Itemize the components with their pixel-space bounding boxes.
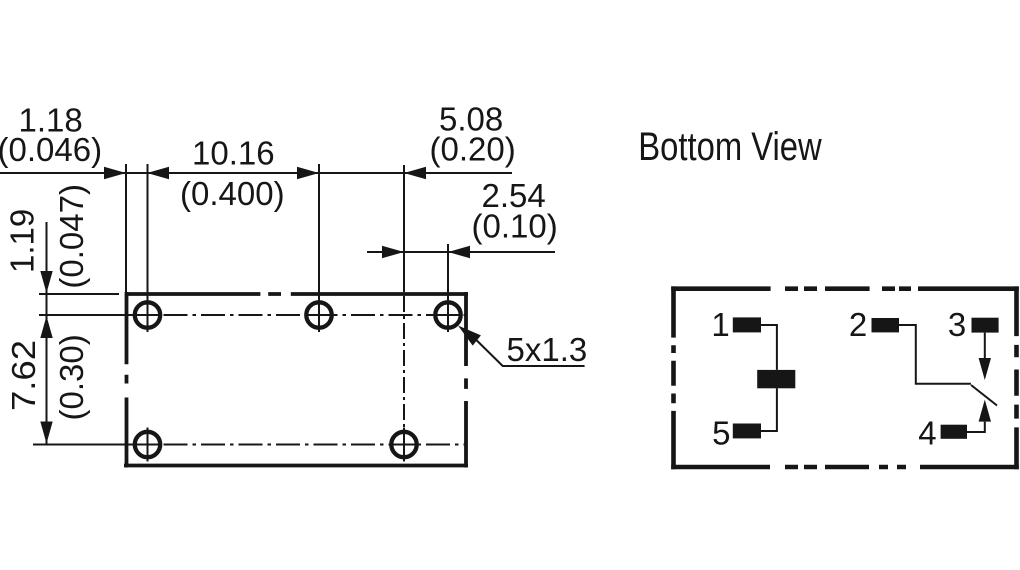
bottom-view box (phantom outline) (671, 286, 1019, 469)
arrow right at hole2 (297, 167, 319, 179)
extension line hole1 x=147 (147, 164, 149, 332)
pad pin 1 (733, 317, 761, 332)
svg-text:(0.10): (0.10) (472, 208, 558, 245)
box right edge (1014, 286, 1019, 469)
svg-text:(0.400): (0.400) (180, 175, 285, 212)
pad pin 4 (941, 425, 967, 439)
extension line hole3 x=448 (447, 244, 449, 332)
arrow down at hole row2 (7.62) (40, 422, 52, 444)
arrowhead pin3 (down) (979, 358, 991, 380)
footprint outline bottom edge (124, 464, 468, 468)
footprint outline right edge (464, 292, 468, 468)
svg-text:2: 2 (849, 306, 867, 343)
svg-text:(0.047): (0.047) (53, 184, 90, 289)
svg-text:(0.046): (0.046) (0, 131, 102, 168)
crosshair verticals bottom holes (148, 428, 405, 462)
hole H2 top-middle (306, 302, 331, 327)
svg-text:3: 3 (948, 306, 966, 343)
leader line 5x1.3 (477, 340, 585, 366)
extension line x=404 above rect (403, 165, 405, 292)
centerline row 2 (dash-dot through bottom holes) (33, 444, 158, 446)
wire pin5 to coil (761, 388, 777, 431)
switch blade (971, 385, 997, 406)
svg-text:7.62: 7.62 (5, 340, 42, 411)
footprint outline left edge (125, 292, 129, 468)
arrows 2.54 dimension (382, 246, 404, 258)
box top edge (671, 286, 1019, 291)
arrow up at hole row1 (7.62) (40, 316, 52, 338)
coil (757, 370, 795, 388)
arrow left at x=404 (404, 167, 426, 179)
pad pin 5 (733, 424, 761, 439)
wire pin1 to coil (761, 325, 777, 370)
arrow left at hole1 (147, 167, 169, 179)
arrow down at rect top (1.19) (40, 271, 52, 293)
pad pin 3 (972, 318, 999, 333)
left vertical dimension line x=46.5 (46, 222, 48, 444)
svg-text:1.19: 1.19 (4, 209, 41, 273)
dimension line 2.54 y=252 (367, 251, 555, 253)
svg-text:5: 5 (712, 415, 730, 452)
pad pin 2 (872, 318, 900, 332)
left extension line rect-top y=294 (39, 293, 119, 295)
extension line hole2 x=319 (318, 164, 320, 332)
centerline row 1 (dash-dot through top holes) (0, 164, 555, 462)
svg-text:Bottom View: Bottom View (638, 125, 821, 169)
wire pin4 to arrow (967, 422, 985, 432)
top dimension line y=173 (0, 172, 512, 174)
svg-text:10.16: 10.16 (192, 135, 275, 172)
svg-text:5x1.3: 5x1.3 (507, 331, 588, 368)
wire pin3 to arrow (984, 333, 986, 358)
hole H3 top-right (435, 302, 460, 327)
arrowheads top dimension line (40, 167, 481, 444)
arrowhead pin4 (up) (979, 400, 991, 422)
hole H4 bottom-left (135, 432, 160, 457)
footprint outline (phantom-line rectangle), top edge (124, 292, 468, 468)
svg-text:(0.20): (0.20) (430, 131, 516, 168)
box left edge (671, 286, 676, 469)
svg-text:(0.30): (0.30) (53, 334, 90, 420)
dimension texts (0, 101, 587, 421)
svg-text:4: 4 (918, 415, 936, 452)
centerline x=404 inside rect (dash-dot) (403, 296, 405, 428)
extension line left edge x=126 (125, 164, 127, 292)
wire pin2 to contact (899, 325, 971, 384)
svg-text:1: 1 (711, 306, 729, 343)
hole H1 top-left (135, 302, 160, 327)
arrow right at rect left edge (104, 167, 126, 179)
hole H5 bottom-right (391, 432, 416, 457)
leader arrowhead 5x1.3 (458, 326, 481, 346)
pin number labels (711, 306, 966, 452)
box bottom edge (671, 465, 1019, 470)
